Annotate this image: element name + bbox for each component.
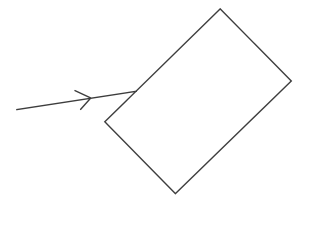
rotated rectangular block: [105, 9, 291, 194]
incident ray line: [16, 91, 137, 110]
arrowhead: [75, 91, 91, 110]
